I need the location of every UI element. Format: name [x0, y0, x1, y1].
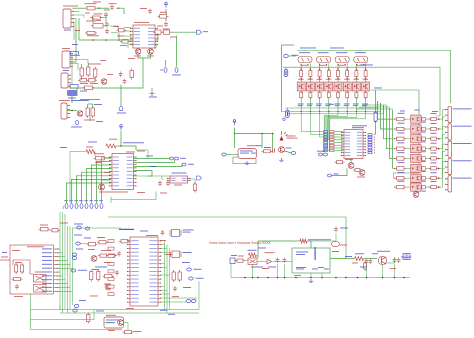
wire net audio to psu	[108, 217, 346, 259]
label	[72, 43, 78, 46]
connector CN4	[61, 103, 67, 119]
pin label	[113, 159, 119, 162]
wire loop	[233, 157, 256, 164]
wire	[124, 30, 131, 32]
pin	[71, 22, 74, 23]
wire	[31, 329, 123, 331]
pin P3	[76, 120, 79, 124]
wire	[406, 158, 411, 160]
resistor RD7	[395, 177, 407, 180]
pin label	[134, 30, 140, 33]
pin P16	[74, 305, 79, 308]
pin label	[42, 247, 52, 250]
pin label	[357, 148, 362, 151]
resistor RB3	[318, 69, 321, 79]
wire	[310, 241, 312, 248]
pin label	[131, 255, 139, 258]
pin label	[149, 251, 157, 254]
wire	[81, 64, 83, 68]
IC U12	[170, 176, 188, 183]
resistor R52	[300, 239, 307, 243]
pin label	[131, 247, 139, 250]
resistor R10	[94, 67, 97, 79]
resistor RC1	[300, 91, 303, 100]
wire bus 4	[67, 226, 69, 313]
label B8	[99, 199, 103, 202]
wire	[362, 105, 387, 107]
wire	[406, 167, 411, 169]
wire mcu	[161, 247, 168, 249]
pin label	[134, 40, 140, 43]
resistor RE7	[429, 177, 439, 180]
label P10	[74, 223, 83, 226]
wire	[309, 98, 311, 112]
transistor Q2	[148, 49, 154, 55]
driver pair U4	[298, 57, 312, 66]
label Q13	[286, 147, 292, 150]
wire	[346, 98, 348, 112]
wire to connector	[439, 134, 445, 148]
label gnd shift	[251, 266, 263, 269]
diode D1	[422, 117, 426, 121]
pin label	[131, 251, 139, 254]
label R11	[80, 82, 88, 85]
pin	[341, 138, 344, 139]
pin mark	[160, 69, 163, 71]
pin	[127, 244, 130, 245]
network pin	[324, 139, 328, 141]
resistor R50	[235, 259, 245, 262]
wire mcu	[161, 240, 163, 242]
junction	[319, 111, 321, 113]
label RC8	[362, 103, 368, 106]
pin	[341, 135, 344, 136]
wire mcu	[161, 251, 170, 253]
pin label	[131, 289, 139, 292]
capacitor C30	[15, 284, 19, 290]
label out2	[401, 256, 411, 259]
wire	[334, 150, 343, 152]
label F2	[76, 248, 83, 251]
wire	[284, 264, 286, 278]
label D	[422, 150, 426, 153]
label	[194, 268, 202, 271]
label micin	[71, 99, 89, 102]
transistor Q17	[118, 320, 124, 326]
port pin	[368, 136, 372, 138]
wire	[58, 252, 63, 254]
resistor R40	[97, 270, 100, 282]
wire	[134, 175, 171, 177]
pin	[127, 259, 130, 260]
wire	[151, 88, 153, 91]
label CN4	[59, 99, 70, 102]
oscillator OSC1	[104, 317, 124, 328]
pin B3	[75, 204, 78, 209]
pin	[54, 279, 59, 280]
pin	[54, 252, 59, 253]
pin P8	[175, 157, 179, 160]
junction	[244, 277, 246, 279]
wire	[169, 248, 171, 309]
wire left rail	[281, 45, 283, 112]
wire	[359, 107, 390, 109]
pin	[158, 298, 161, 299]
pin	[445, 178, 448, 179]
wire	[234, 128, 236, 134]
label B6	[89, 199, 93, 202]
crystal Y2	[171, 251, 182, 258]
label G	[340, 244, 347, 247]
port pin	[368, 149, 372, 151]
pin	[337, 68, 339, 70]
wire	[73, 227, 122, 229]
wire bus 5	[69, 226, 71, 310]
label C	[86, 146, 93, 149]
network pin	[324, 142, 328, 144]
pin SCL	[319, 153, 323, 156]
pin label	[171, 179, 176, 182]
wire	[282, 44, 295, 46]
wire	[70, 151, 86, 153]
pin	[365, 78, 367, 80]
optocoupler OC6	[411, 164, 422, 172]
label X1	[292, 54, 299, 57]
wire scan 6	[92, 165, 112, 203]
label U10b	[352, 126, 364, 129]
pin	[70, 57, 73, 58]
label P1	[172, 74, 181, 77]
label	[80, 90, 87, 93]
wire	[355, 91, 357, 93]
wire top	[258, 240, 300, 242]
wire	[134, 158, 170, 160]
pin P7	[170, 157, 174, 160]
connector CN3	[61, 73, 68, 88]
pin	[341, 143, 344, 144]
label G2	[231, 254, 237, 257]
label	[140, 7, 147, 10]
pin	[158, 294, 161, 295]
pin label	[149, 243, 157, 246]
wire	[300, 91, 302, 93]
label U7	[355, 51, 366, 54]
part small	[108, 247, 114, 250]
pin	[365, 68, 367, 70]
resistor R8	[80, 66, 83, 78]
wire	[120, 131, 122, 146]
label K1	[453, 107, 472, 110]
pin	[67, 109, 70, 110]
label	[183, 231, 191, 234]
pin	[158, 275, 161, 276]
pin	[445, 155, 448, 156]
resistor R34	[50, 229, 60, 232]
pin	[300, 68, 302, 70]
wire row feed 4	[387, 107, 394, 149]
resistor RD6	[395, 167, 407, 170]
pin	[70, 53, 73, 54]
label	[318, 266, 324, 269]
label header	[119, 228, 134, 231]
label serial	[119, 228, 134, 231]
wire bottom 2	[60, 312, 199, 314]
label R25	[109, 138, 117, 141]
resistor RC7	[355, 91, 358, 100]
wire	[166, 245, 168, 313]
label G2	[258, 247, 266, 250]
wire bus lane 8	[324, 112, 366, 151]
pin label	[148, 43, 154, 46]
resistor RB7	[355, 69, 358, 79]
pin	[70, 61, 73, 62]
pin	[127, 271, 130, 272]
label	[307, 104, 312, 107]
network resistor	[330, 133, 335, 135]
label F	[35, 271, 42, 274]
pin	[394, 148, 395, 149]
wire	[58, 287, 70, 289]
wire	[337, 91, 339, 93]
svg-text:1: 1	[62, 205, 65, 210]
label MIC	[78, 269, 87, 272]
label D	[422, 170, 426, 173]
wire mcu	[161, 244, 165, 246]
label R12	[90, 82, 98, 85]
wire	[289, 55, 297, 57]
pin label	[357, 131, 362, 134]
label RC4	[325, 103, 331, 106]
label RC5	[335, 103, 341, 106]
wire	[332, 169, 348, 176]
resistor R37	[98, 254, 109, 257]
pin	[394, 138, 395, 139]
wire mcu	[161, 285, 165, 287]
pin label	[149, 293, 157, 296]
wire to connector	[439, 117, 445, 129]
pin	[445, 115, 448, 116]
pin label	[357, 151, 362, 154]
junction	[284, 277, 286, 279]
label RD5	[398, 151, 405, 154]
wire	[334, 147, 343, 149]
wire	[319, 91, 321, 93]
wire	[165, 18, 167, 21]
label F	[14, 295, 23, 298]
pin	[130, 34, 133, 35]
label F	[15, 261, 22, 264]
resistor RC5	[337, 91, 340, 100]
pin label	[149, 274, 157, 277]
label R22	[264, 146, 271, 149]
label F2	[2, 251, 7, 254]
pin	[341, 149, 344, 150]
label RC2	[307, 103, 313, 106]
label	[75, 29, 80, 32]
pin	[341, 146, 344, 147]
pin label	[127, 163, 133, 166]
label D	[422, 190, 426, 193]
wire	[58, 283, 68, 285]
pin label	[134, 37, 140, 40]
pin	[341, 141, 344, 142]
pin label	[149, 289, 157, 292]
label BZ1	[247, 144, 257, 147]
isolation box	[10, 245, 54, 294]
label R52	[308, 238, 331, 241]
pin B5	[85, 204, 88, 209]
pin label	[148, 33, 154, 36]
transistor Q10	[348, 163, 354, 169]
label vert	[315, 247, 316, 260]
pin	[127, 240, 130, 241]
wire mcu	[161, 278, 163, 280]
wire row feed 5	[390, 109, 394, 159]
wire	[309, 91, 311, 93]
label	[335, 78, 341, 81]
pin	[67, 113, 70, 114]
wire	[94, 152, 96, 157]
pin	[363, 135, 366, 136]
pin B7	[95, 204, 98, 209]
inductor L1	[355, 257, 364, 261]
pin	[445, 172, 448, 173]
label D	[422, 180, 426, 183]
label	[431, 161, 437, 164]
wire scan 7	[97, 161, 112, 203]
pin	[438, 168, 440, 170]
label U6	[336, 51, 347, 54]
pin label	[149, 262, 157, 265]
wire	[330, 258, 354, 260]
label rect	[265, 251, 275, 254]
pin label	[131, 301, 139, 304]
pin label	[42, 286, 52, 289]
label	[107, 73, 113, 76]
pin label	[149, 270, 157, 273]
wire	[71, 55, 73, 85]
wire	[273, 261, 293, 263]
pin	[438, 177, 440, 179]
wire	[105, 16, 107, 23]
pin	[127, 256, 130, 257]
wire	[58, 279, 65, 281]
power VCC	[164, 2, 168, 8]
wire	[189, 179, 195, 184]
capacitor C5	[120, 40, 130, 44]
resistor R38	[107, 254, 118, 257]
IC U13 MCU	[130, 237, 158, 306]
wire	[346, 91, 348, 93]
label	[362, 104, 367, 107]
pin label	[131, 262, 139, 265]
connector K1	[448, 106, 452, 122]
wire	[111, 32, 118, 34]
diode D6	[422, 167, 426, 171]
wire	[12, 260, 14, 265]
pin	[445, 161, 448, 162]
wire	[334, 131, 343, 133]
label IC2	[134, 21, 149, 24]
label pair	[319, 64, 327, 67]
label	[113, 25, 119, 28]
pin label	[345, 134, 350, 137]
wire	[165, 9, 167, 15]
wire	[88, 103, 93, 105]
wire	[73, 22, 75, 40]
wire	[334, 144, 343, 146]
resistor R51	[249, 253, 257, 257]
junction	[105, 39, 107, 41]
wire bus lane 2	[310, 112, 323, 135]
wire	[121, 146, 136, 150]
pin label	[127, 156, 133, 159]
pin label	[357, 140, 362, 143]
wire	[328, 91, 330, 93]
label	[96, 19, 101, 22]
wire to connector	[439, 110, 445, 120]
pin	[445, 132, 448, 133]
capacitor C31	[117, 251, 121, 257]
pin	[134, 178, 137, 179]
wire	[92, 17, 94, 23]
label B3	[74, 199, 78, 202]
pin label	[149, 278, 157, 281]
label K4	[453, 159, 472, 162]
connector OUT	[403, 254, 410, 260]
wire	[93, 310, 95, 318]
pin P19	[189, 277, 194, 280]
label C 1uF	[183, 229, 194, 232]
label F	[88, 248, 95, 251]
pin	[346, 68, 348, 70]
bus band	[324, 116, 331, 131]
pin label	[113, 166, 119, 169]
pin label	[42, 255, 52, 258]
pin	[127, 248, 130, 249]
connector K4	[448, 158, 452, 174]
pin	[54, 275, 59, 276]
pin P5	[222, 153, 226, 156]
pin	[310, 78, 312, 80]
pin label	[113, 163, 119, 166]
label C	[174, 184, 182, 187]
wire	[154, 44, 157, 49]
wire scan 8	[102, 158, 112, 203]
wire to connector	[439, 152, 445, 169]
resistor R45	[178, 270, 181, 282]
junction	[234, 133, 236, 135]
wire mcu	[161, 263, 165, 265]
label RD6	[398, 161, 405, 164]
pin P14	[72, 257, 77, 260]
junction	[120, 145, 122, 147]
pin	[158, 248, 161, 249]
wire	[161, 298, 197, 301]
label B5	[84, 199, 88, 202]
label RD8	[398, 180, 405, 183]
port pin	[368, 147, 372, 149]
pin	[188, 178, 191, 179]
label D	[422, 121, 426, 124]
label F	[104, 283, 111, 286]
label	[109, 2, 117, 5]
optocoupler OK8	[362, 82, 370, 91]
resistor R35	[87, 243, 98, 246]
label	[431, 152, 437, 155]
ground	[309, 279, 314, 283]
label	[335, 104, 340, 107]
